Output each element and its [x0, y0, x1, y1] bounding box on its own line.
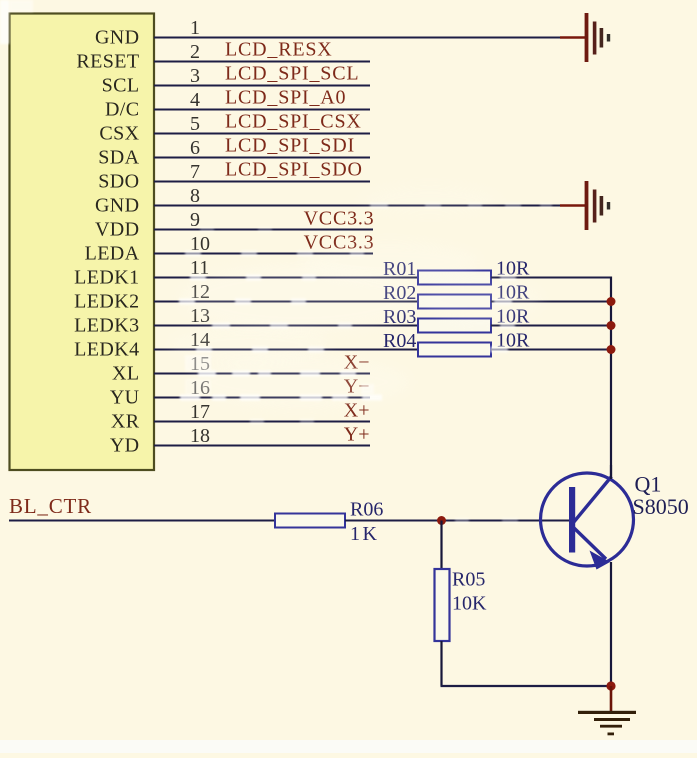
svg-text:YU: YU: [110, 386, 140, 408]
ground symbol (bottom): [578, 686, 636, 735]
wire bus vertical (R01-R04 to Q1 collector): [610, 277, 612, 479]
transistor Q1: [541, 473, 634, 570]
pin 17 wire: [154, 421, 370, 423]
pin 16 wire: [154, 397, 370, 399]
svg-text:6: 6: [190, 137, 200, 159]
svg-text:GND: GND: [95, 26, 140, 48]
svg-text:Y+: Y+: [344, 424, 370, 446]
junction (R06 / R05): [437, 516, 446, 525]
svg-text:LCD_SPI_SDO: LCD_SPI_SDO: [225, 159, 363, 181]
svg-text:GND: GND: [95, 194, 140, 216]
svg-text:BL_CTR: BL_CTR: [9, 494, 92, 518]
svg-text:LCD_RESX: LCD_RESX: [225, 39, 333, 61]
svg-text:SDA: SDA: [98, 146, 139, 168]
svg-text:2: 2: [190, 41, 200, 63]
ground symbol (pin 8 GND): [560, 181, 610, 230]
svg-text:LEDK2: LEDK2: [74, 290, 139, 312]
connector box: [10, 14, 155, 471]
svg-text:CSX: CSX: [99, 122, 139, 144]
svg-text:LCD_SPI_SCL: LCD_SPI_SCL: [225, 63, 359, 85]
svg-text:R06: R06: [350, 499, 383, 521]
resistor R02: [418, 295, 491, 309]
wire R01 to bus: [491, 277, 612, 279]
svg-text:LEDK4: LEDK4: [74, 338, 139, 360]
svg-text:7: 7: [190, 161, 200, 183]
svg-text:5: 5: [190, 113, 200, 135]
svg-text:LCD_SPI_A0: LCD_SPI_A0: [225, 87, 346, 109]
svg-text:18: 18: [190, 425, 210, 447]
svg-text:VDD: VDD: [95, 218, 140, 240]
wire junction to R05: [440, 521, 442, 571]
svg-text:YD: YD: [110, 434, 140, 456]
svg-text:SCL: SCL: [102, 74, 140, 96]
pin 2 wire: [154, 61, 370, 63]
junction (bus / pin 13 wire): [607, 321, 616, 330]
svg-text:LCD_SPI_CSX: LCD_SPI_CSX: [225, 111, 362, 133]
pin 12 wire: [154, 301, 418, 303]
junction (bus / pin 12 wire): [607, 297, 616, 306]
pin 3 wire: [154, 85, 370, 87]
wire Q1 collector up: [610, 465, 612, 479]
wire R04 to bus: [491, 349, 612, 351]
svg-text:LCD_SPI_SDI: LCD_SPI_SDI: [225, 135, 355, 157]
pin 18 wire: [154, 445, 370, 447]
svg-text:1K: 1K: [350, 523, 379, 545]
wire R02 to bus: [491, 301, 612, 303]
wire R06 to Q1 base: [345, 520, 570, 522]
pin 7 wire: [154, 181, 370, 183]
resistor R03: [418, 319, 491, 333]
pin 10 wire: [154, 253, 373, 255]
wire R05 to ground rail: [440, 641, 442, 686]
pin 11 wire: [154, 277, 418, 279]
pin 4 wire: [154, 109, 370, 111]
svg-text:RESET: RESET: [76, 50, 139, 72]
junction (emitter rail / ground): [606, 681, 615, 690]
pin 1 wire: [154, 37, 562, 39]
svg-text:R04: R04: [383, 330, 416, 352]
svg-text:1: 1: [190, 17, 200, 39]
pin 14 wire: [154, 349, 418, 351]
pin 13 wire: [154, 325, 418, 327]
svg-text:LEDK3: LEDK3: [74, 314, 139, 336]
wire R03 to bus: [491, 325, 612, 327]
svg-text:VCC3.3: VCC3.3: [304, 208, 375, 230]
pin 9 wire: [154, 229, 373, 231]
svg-text:R05: R05: [452, 569, 485, 591]
svg-text:10K: 10K: [452, 593, 487, 615]
svg-text:8: 8: [190, 185, 200, 207]
resistor R04: [418, 343, 491, 357]
svg-text:XR: XR: [111, 410, 140, 432]
wire BL_CTR to R06: [9, 520, 275, 522]
wire Q1 emitter down: [610, 562, 612, 686]
pin 6 wire: [154, 157, 370, 159]
junction (bus / pin 14 wire): [607, 345, 616, 354]
svg-text:SDO: SDO: [98, 170, 139, 192]
pin 15 wire: [154, 373, 370, 375]
svg-text:XL: XL: [112, 362, 139, 384]
svg-text:LEDK1: LEDK1: [74, 266, 139, 288]
svg-text:3: 3: [190, 65, 200, 87]
ground symbol (pin 1 GND): [560, 13, 610, 62]
resistor R05: [435, 569, 450, 641]
svg-text:LEDA: LEDA: [85, 242, 140, 264]
pin 5 wire: [154, 133, 370, 135]
svg-text:D/C: D/C: [105, 98, 140, 120]
resistor R01: [418, 271, 491, 285]
svg-text:4: 4: [190, 89, 200, 111]
pin 8 wire: [154, 205, 562, 207]
svg-text:17: 17: [190, 401, 210, 423]
resistor R06: [275, 514, 345, 528]
wire ground rail horizontal: [441, 685, 612, 687]
svg-text:Q1: Q1: [635, 472, 662, 497]
svg-text:9: 9: [190, 209, 200, 231]
svg-text:S8050: S8050: [633, 494, 689, 519]
